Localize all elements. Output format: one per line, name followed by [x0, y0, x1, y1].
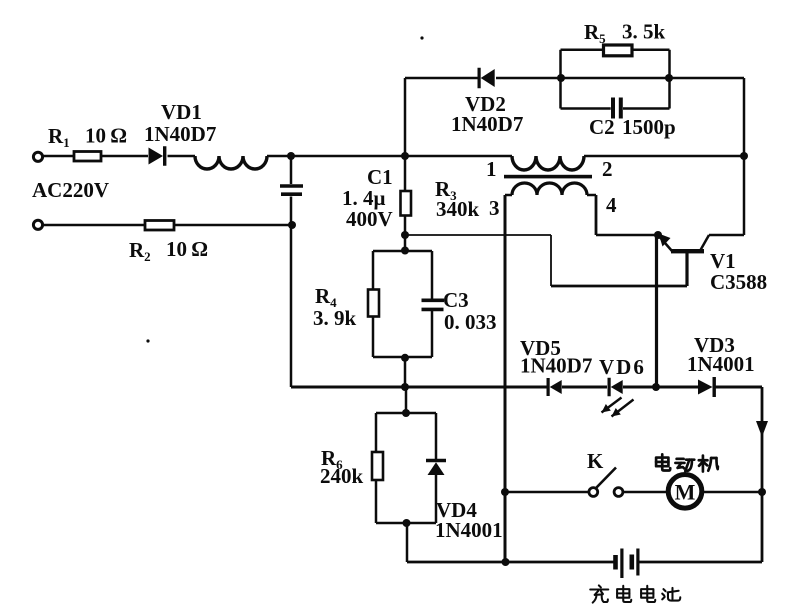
- svg-text:3. 9k: 3. 9k: [313, 306, 357, 330]
- svg-text:AC220V: AC220V: [32, 178, 109, 202]
- svg-text:1N4001: 1N4001: [435, 518, 503, 542]
- svg-text:3. 5k: 3. 5k: [622, 20, 666, 44]
- svg-text:2: 2: [602, 157, 613, 181]
- svg-text:10 Ω: 10 Ω: [166, 237, 208, 261]
- svg-text:1N4001: 1N4001: [687, 352, 755, 376]
- svg-text:C2: C2: [589, 115, 615, 139]
- svg-text:3: 3: [489, 196, 500, 220]
- svg-text:M: M: [675, 480, 696, 505]
- svg-text:240k: 240k: [320, 464, 364, 488]
- svg-text:K: K: [587, 449, 604, 473]
- svg-text:C3588: C3588: [710, 270, 767, 294]
- svg-text:4: 4: [606, 193, 617, 217]
- svg-text:340k: 340k: [436, 197, 480, 221]
- svg-text:1N40D7: 1N40D7: [144, 122, 216, 146]
- svg-text:VD1: VD1: [161, 100, 202, 124]
- svg-text:400V: 400V: [346, 207, 393, 231]
- svg-text:VD6: VD6: [599, 355, 646, 379]
- svg-text:0. 033: 0. 033: [444, 310, 497, 334]
- svg-text:1: 1: [486, 157, 497, 181]
- svg-text:C3: C3: [443, 288, 469, 312]
- svg-text:1500p: 1500p: [622, 115, 676, 139]
- svg-text:10 Ω: 10 Ω: [85, 124, 127, 148]
- svg-text:1N40D7: 1N40D7: [520, 354, 592, 378]
- svg-text:1N40D7: 1N40D7: [451, 112, 523, 136]
